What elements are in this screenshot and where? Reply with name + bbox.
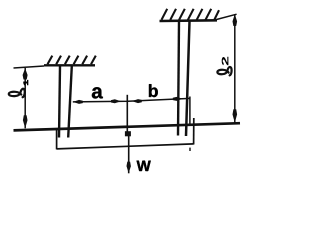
extension line left (ceiling to l1 dimension) (14, 66, 45, 68)
label l2 (217, 57, 231, 76)
extension line right (ceiling to l2 dimension) (216, 14, 237, 19)
bar bottom-right corner overshoot tick (189, 148, 191, 151)
weight W arrow (127, 136, 131, 173)
wire 2 (left pair, right wire) (68, 66, 72, 138)
label b (149, 84, 158, 97)
ceiling left hatching (48, 56, 96, 65)
wire 3 (right pair, left wire) (178, 22, 179, 136)
ceiling right hatching (162, 9, 220, 20)
dimension line l1 (23, 68, 28, 128)
node: weight attachment dot (125, 131, 131, 136)
wire 1 (left pair, left wire) (59, 66, 60, 138)
dimension line a-b (73, 97, 190, 104)
label a (92, 87, 103, 98)
node: weight attachment tick (126, 95, 128, 132)
bar left edge (56, 129, 58, 150)
extension tick at right end of b dimension (189, 97, 191, 125)
bar bottom edge (57, 144, 194, 149)
dimension line l2 (233, 14, 238, 123)
ceiling left (44, 64, 95, 66)
label l1 (9, 80, 28, 97)
bar right edge (193, 118, 195, 145)
bar (top line, also dimension extension at both ends) (14, 123, 241, 130)
label W (137, 161, 151, 171)
ceiling right (160, 19, 218, 22)
wire 4 (right pair, right wire) (186, 22, 190, 137)
